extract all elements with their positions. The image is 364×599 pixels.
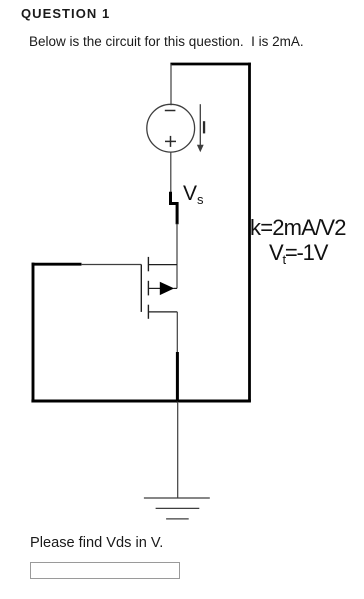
label I xyxy=(203,121,205,133)
ground symbol xyxy=(144,498,210,519)
heading QUESTION 1 xyxy=(21,6,110,21)
wire Vs thick jog segment xyxy=(171,192,178,225)
label Vs xyxy=(183,182,204,207)
wire bottom rail to ground xyxy=(177,403,179,498)
current source plus sign xyxy=(165,136,176,147)
wire bottom rail (thick) xyxy=(31,400,251,403)
current source minus sign xyxy=(165,110,176,112)
wire top rail (thick) xyxy=(170,63,250,66)
wire gate lead thin segment xyxy=(81,264,141,266)
transistor Q1 channel bar source xyxy=(147,305,149,319)
question text xyxy=(30,535,163,551)
answer input box xyxy=(30,562,180,579)
wire current source to Vs segment xyxy=(170,152,172,192)
transistor Q1 channel bar drain xyxy=(147,257,149,271)
transistor Q1 gate bar xyxy=(140,265,142,312)
label Vt=-1V xyxy=(269,240,327,267)
transistor Q1 source lead xyxy=(148,311,177,313)
wire from top rail down to current source xyxy=(170,64,172,105)
transistor Q1 body lead with arrow xyxy=(148,282,177,295)
current direction arrow xyxy=(197,104,204,152)
wire Vs to drain xyxy=(176,224,178,289)
label k=2mA/V2 xyxy=(250,215,346,241)
wire right rail (thick) xyxy=(248,63,251,402)
wire source down to bottom rail xyxy=(176,312,178,403)
transistor Q1 channel bar body xyxy=(147,281,149,296)
wire left rail (thick) xyxy=(32,263,35,401)
current source circle xyxy=(147,104,195,152)
transistor Q1 drain lead xyxy=(148,264,177,266)
wire gate lead thick segment xyxy=(32,263,82,266)
wire source thick overlay segment xyxy=(176,352,179,402)
prompt text xyxy=(29,34,304,49)
